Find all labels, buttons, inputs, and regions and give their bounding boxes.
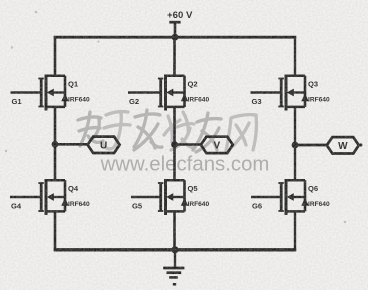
wire Q4 source to bottom rail [54,211,57,251]
transistor Q3 [278,75,308,111]
ground [174,250,176,267]
node W junction [292,142,299,149]
power bar +60V [169,21,180,24]
wire to terminal U [55,143,88,146]
transistor Q5 [158,179,188,215]
wire G4 gate [10,196,41,199]
wire to terminal V [175,143,202,146]
node top-center junction [172,34,179,41]
wire left bus upper (Q1 drain) [54,36,57,76]
transistor Q6 [278,179,308,215]
terminal W [327,137,359,153]
wire Q3 source to node W [294,107,296,180]
node V junction [171,141,178,148]
transistor Q2 [158,75,188,111]
node bottom-center junction [171,246,178,253]
transistor Q4 [38,179,68,215]
wire top rail [54,36,296,39]
wire Q2 source to node V [173,107,176,180]
wire Q5 source to bottom rail [173,211,176,249]
wire G6 gate [251,196,281,199]
terminal U [88,137,120,153]
wire to terminal W [295,144,327,147]
transistor Q1 [38,75,68,111]
node U junction [52,141,59,148]
wire Q1 source to node U [54,107,57,180]
wire Q6 source to bottom rail [294,211,296,251]
wire G1 gate [11,91,42,94]
wire mid bus upper (Q2 drain) [173,37,176,75]
wire G5 gate [131,196,161,199]
wire G3 gate [251,91,282,94]
wire bottom rail [54,248,296,251]
wire right bus upper (Q3 drain) [294,36,296,76]
terminal V [201,137,233,153]
wire G2 gate [128,91,161,94]
